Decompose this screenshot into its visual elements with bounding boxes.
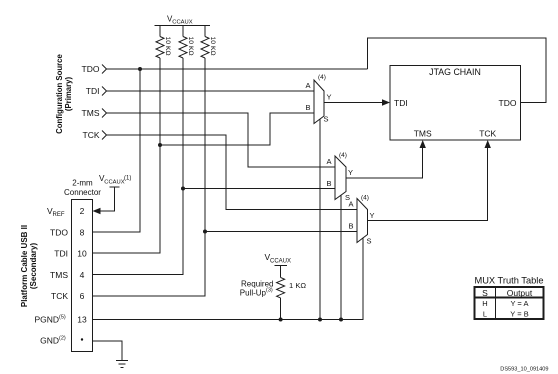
svg-text:Y = A: Y = A (510, 299, 528, 308)
wire VCCAUX(1) to connector pin 2 (99, 187, 115, 211)
pin TDO chevron (primary source) (102, 65, 107, 74)
pin TDI chevron (primary source) (102, 87, 107, 96)
svg-text:B: B (305, 103, 310, 112)
wire R2 top stub (182, 26, 184, 37)
svg-text:TCK: TCK (51, 291, 68, 301)
svg-text:(Primary): (Primary) (64, 76, 73, 111)
resistor R1 10K (156, 37, 164, 59)
svg-text:B: B (348, 222, 353, 231)
power symbol VCCAUX(1) for connector VREF (110, 186, 120, 188)
svg-text:PGND: PGND (34, 315, 59, 325)
wire mux U3 select S down to select net (362, 238, 364, 320)
svg-text:TDI: TDI (54, 249, 68, 259)
svg-text:13: 13 (77, 315, 87, 325)
ground (116, 361, 128, 368)
svg-text:1 KΩ: 1 KΩ (289, 281, 306, 290)
MUX Truth Table header separator (475, 297, 544, 299)
junction primary TDO to connector pin 8 (138, 67, 142, 71)
svg-text:TDO: TDO (82, 64, 100, 74)
pin TCK chevron (primary source) (102, 131, 107, 140)
svg-text:Pull-Up: Pull-Up (240, 289, 267, 298)
resistor R2 10K (179, 37, 187, 59)
MUX Truth Table box (475, 287, 544, 319)
junction select net / mux U2 S (339, 318, 343, 322)
junction select net / mux U1 S (318, 318, 322, 322)
svg-text:TMS: TMS (50, 270, 68, 280)
svg-text:(3): (3) (266, 288, 273, 294)
svg-text:CCAUX: CCAUX (104, 180, 124, 186)
svg-text:L: L (483, 310, 487, 319)
pin label GND(2) (40, 336, 66, 346)
op-amp U2 mux (TMS select) body (335, 156, 346, 200)
svg-text:Y: Y (327, 93, 332, 102)
svg-text:(1): (1) (124, 176, 131, 182)
svg-text:GND: GND (40, 336, 59, 346)
svg-text:(4): (4) (318, 74, 326, 81)
svg-text:Y: Y (348, 168, 353, 177)
node VCCAUX label (1K pull-up) (265, 252, 292, 265)
svg-text:(5): (5) (59, 315, 66, 321)
connector J1 2-mm body (72, 200, 93, 352)
wire primary TDO line (107, 68, 368, 70)
svg-text:CCAUX: CCAUX (270, 259, 291, 265)
label Configuration Source (Primary), rotated (55, 53, 73, 133)
svg-text:S: S (324, 115, 329, 124)
svg-text:10: 10 (77, 249, 87, 259)
svg-text:TCK: TCK (83, 130, 100, 140)
wire JTAG CHAIN TDO feedback to primary TDO (368, 38, 547, 103)
svg-text:6: 6 (80, 291, 85, 301)
wire R2 bottom to connector pin 4 (secondary TMS net) (93, 58, 184, 275)
svg-text:Connector: Connector (64, 188, 101, 197)
svg-text:S: S (482, 288, 488, 298)
arrow into JTAG CHAIN TCK (485, 140, 491, 148)
svg-text:(4): (4) (339, 152, 347, 159)
svg-text:A: A (348, 200, 353, 209)
resistor R4 1K (required pull-up) (277, 278, 285, 298)
op-amp U3 mux (TCK select) body (357, 199, 368, 243)
arrow into connector pin 2 (93, 208, 101, 214)
label 2-mm Connector caption (64, 179, 101, 198)
svg-text:S: S (367, 237, 372, 246)
svg-text:REF: REF (53, 212, 65, 218)
pin TMS chevron (primary source) (102, 109, 107, 118)
op-amp JTAG CHAIN block U4 (390, 66, 521, 141)
svg-text:Output: Output (507, 288, 533, 298)
junction select net / 1K pull-up (279, 318, 283, 322)
svg-text:Configuration Source: Configuration Source (55, 53, 64, 133)
label Required Pull-Up(3) (240, 280, 274, 298)
wire resistor R4 to select net (280, 298, 282, 320)
svg-text:TDO: TDO (499, 98, 517, 108)
label Platform Cable USB II (Secondary), rotated (20, 225, 38, 307)
svg-text:CCAUX: CCAUX (172, 20, 192, 26)
svg-text:DS593_10_091409: DS593_10_091409 (500, 367, 548, 373)
svg-text:H: H (482, 299, 487, 308)
wire mux U1 output Y to JTAG CHAIN TDI (324, 102, 383, 104)
wire primary TCK to mux U3 input A (107, 135, 358, 210)
svg-text:Y = B: Y = B (510, 310, 528, 319)
MUX Truth Table column separator (495, 287, 497, 319)
svg-text:A: A (305, 81, 310, 90)
wire mux U3 output Y to JTAG CHAIN TCK (368, 147, 488, 221)
wire R3 bottom to connector pin 6 (secondary TCK net) (93, 58, 206, 296)
svg-text:TMS: TMS (414, 129, 432, 139)
node VCCAUX label (top) (167, 15, 193, 26)
wire secondary TCK branch to mux U3 input B (205, 231, 357, 233)
svg-text:A: A (326, 157, 331, 166)
wire select net from connector pin 13 (PGND) (93, 238, 364, 320)
wire secondary TDI branch to mux U1 input B (160, 113, 314, 145)
svg-text:2-mm: 2-mm (72, 179, 93, 188)
wire R3 top stub (204, 26, 206, 37)
svg-text:JTAG CHAIN: JTAG CHAIN (429, 67, 481, 77)
svg-text:TCK: TCK (479, 129, 496, 139)
wire secondary TMS branch to mux U2 input B (183, 188, 335, 190)
svg-text:B: B (326, 179, 331, 188)
wire mux U1 select S down to select net (319, 119, 321, 320)
wire connector GND pin to ground (93, 341, 123, 361)
wire R1 top stub (159, 26, 161, 37)
wire mux U2 output Y to JTAG CHAIN TMS (346, 147, 423, 178)
power symbol VCCAUX rail (1K pull-up) (275, 265, 288, 267)
svg-text:TDI: TDI (86, 86, 100, 96)
pin label PGND(5) (34, 315, 65, 325)
node VCCAUX(1) label (99, 174, 131, 186)
svg-text:(2): (2) (59, 336, 66, 342)
arrow into JTAG CHAIN TDI (382, 99, 390, 105)
svg-text:MUX Truth Table: MUX Truth Table (474, 276, 543, 286)
pin dot (GND pin) (81, 338, 83, 340)
wire VCCAUX rail to resistor R4 (280, 266, 282, 278)
svg-text:10 KΩ: 10 KΩ (209, 37, 216, 56)
svg-text:TDO: TDO (50, 227, 68, 237)
svg-text:Platform Cable USB II: Platform Cable USB II (20, 225, 29, 307)
junction R2 net branch to mux U2 input B (181, 187, 185, 191)
svg-text:4: 4 (80, 270, 85, 280)
junction R1 net branch to mux U1 input B (158, 143, 162, 147)
svg-text:Y: Y (370, 211, 375, 220)
wire primary TMS to mux U2 input A (107, 113, 336, 167)
MUX Truth Table row L (483, 310, 529, 319)
svg-text:TMS: TMS (82, 108, 100, 118)
wire R1 bottom to connector pin 10 (secondary TDI net) (93, 58, 161, 253)
junction R3 net branch to mux U3 input B (203, 230, 207, 234)
wire primary TDI to mux U1 input A (107, 90, 315, 92)
svg-text:(4): (4) (361, 195, 369, 202)
svg-text:10 KΩ: 10 KΩ (164, 37, 171, 56)
svg-text:TDI: TDI (394, 98, 408, 108)
resistor R3 10K (201, 37, 209, 59)
power symbol VCCAUX rail (top pull-up rail) (155, 25, 211, 27)
MUX Truth Table row H (482, 299, 528, 308)
svg-text:10 KΩ: 10 KΩ (187, 37, 194, 56)
arrow into JTAG CHAIN TMS (420, 140, 426, 148)
svg-text:2: 2 (80, 206, 85, 216)
pin label VREF (47, 206, 65, 218)
svg-text:(Secondary): (Secondary) (29, 243, 38, 290)
op-amp U1 mux (TDI select) body (314, 80, 324, 124)
svg-text:8: 8 (80, 227, 85, 237)
wire TDO down to connector pin 8 (93, 69, 141, 232)
wire mux U2 select S down to select net (340, 195, 342, 320)
